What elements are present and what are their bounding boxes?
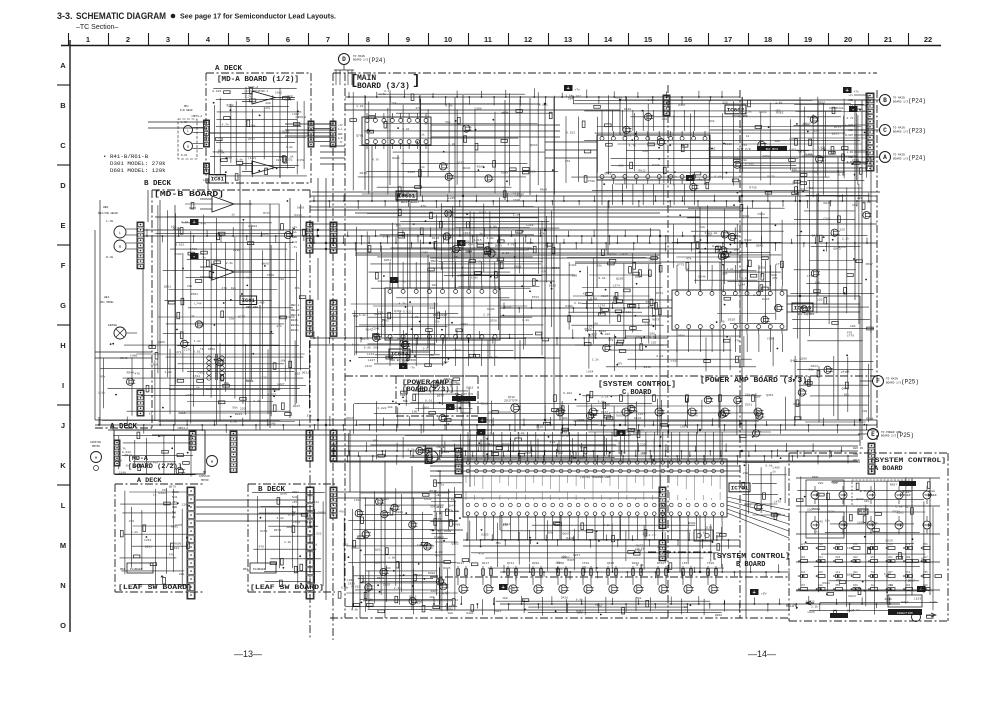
- svg-text:10k: 10k: [460, 243, 466, 247]
- svg-text:BMF: BMF: [716, 536, 721, 539]
- svg-text:2.2k: 2.2k: [475, 260, 482, 264]
- svg-text:VAR: VAR: [853, 453, 858, 456]
- svg-text:C486: C486: [130, 354, 137, 357]
- svg-text:0.01: 0.01: [411, 316, 418, 319]
- svg-text:1k: 1k: [424, 122, 428, 126]
- power flag B- #8: [446, 404, 455, 410]
- svg-text:100: 100: [447, 612, 453, 615]
- svg-text:GND: GND: [848, 156, 853, 159]
- svg-text:R518: R518: [272, 389, 279, 392]
- svg-text:0.022: 0.022: [572, 95, 581, 98]
- svg-text:1k: 1k: [684, 605, 688, 609]
- svg-text:6.8k: 6.8k: [740, 158, 747, 162]
- power flag B- #10: [477, 429, 486, 435]
- svg-text:1k: 1k: [420, 384, 424, 388]
- svg-text:Q566: Q566: [280, 493, 287, 496]
- svg-text:16: 16: [684, 35, 692, 44]
- svg-text:L284: L284: [428, 307, 435, 310]
- svg-text:C362: C362: [420, 449, 427, 452]
- svg-text:Q289: Q289: [616, 278, 623, 281]
- svg-text:‹5V: ‹5V: [436, 529, 441, 533]
- svg-text:D773: D773: [677, 264, 684, 267]
- svg-text:+5V: +5V: [761, 593, 767, 596]
- plunger A: [127, 563, 153, 573]
- svg-text:6.8k: 6.8k: [741, 276, 748, 280]
- connector D to main board (P24): [339, 54, 350, 65]
- svg-text:M: M: [211, 461, 213, 465]
- svg-text:1.8k: 1.8k: [288, 513, 295, 517]
- svg-text:100: 100: [502, 597, 508, 600]
- svg-text:0.01: 0.01: [469, 274, 476, 277]
- svg-text:R-OUT: R-OUT: [845, 134, 853, 137]
- power flag B+ #4: [843, 87, 852, 93]
- svg-text:D415: D415: [294, 214, 301, 217]
- svg-text:R152: R152: [282, 130, 289, 133]
- svg-text:R549: R549: [501, 171, 508, 174]
- svg-text:L744: L744: [194, 303, 201, 306]
- svg-text:(P24): (P24): [368, 57, 386, 64]
- svg-text:4: 4: [206, 35, 211, 44]
- svg-text:C: C: [60, 141, 66, 150]
- svg-text:D181: D181: [836, 107, 843, 110]
- svg-text:1k: 1k: [905, 505, 909, 509]
- svg-text:C534: C534: [582, 562, 589, 565]
- svg-text:0.01: 0.01: [181, 221, 188, 224]
- svg-text:CNP12-A: CNP12-A: [177, 427, 188, 430]
- svg-text:2.2k: 2.2k: [502, 251, 509, 255]
- svg-text:R737: R737: [263, 212, 270, 215]
- connector leaf B: [306, 487, 314, 599]
- svg-text:2.2k: 2.2k: [245, 94, 252, 98]
- svg-text:6.8k: 6.8k: [598, 276, 605, 280]
- svg-text:C700: C700: [588, 180, 595, 183]
- svg-text:Q494: Q494: [762, 155, 769, 158]
- svg-text:R642: R642: [366, 329, 373, 332]
- svg-text:D624: D624: [811, 365, 818, 368]
- svg-text:33k: 33k: [722, 272, 728, 276]
- svg-text:‹SW: ‹SW: [436, 481, 441, 485]
- svg-text:C466: C466: [789, 148, 796, 151]
- IC package dolby mid CXA1330P: [385, 288, 500, 340]
- connector CN852: [330, 121, 336, 147]
- connector main top: [663, 95, 670, 116]
- svg-text:100: 100: [802, 384, 808, 387]
- connector F out (P25): [873, 376, 884, 387]
- svg-text:Q385: Q385: [151, 364, 158, 367]
- svg-text:470: 470: [222, 287, 228, 290]
- svg-text:220: 220: [642, 150, 648, 153]
- svg-text:19: 19: [804, 35, 812, 44]
- svg-text:TEST P/N: TEST P/N: [737, 147, 751, 151]
- svg-text:655: 655: [836, 584, 841, 587]
- svg-text:R805: R805: [443, 567, 450, 570]
- svg-text:O: O: [60, 621, 66, 630]
- svg-text:L663: L663: [347, 579, 354, 582]
- svg-text:D393: D393: [158, 492, 165, 495]
- svg-text:D301 MODEL: 270k: D301 MODEL: 270k: [110, 160, 166, 167]
- svg-text:470: 470: [415, 107, 421, 110]
- svg-text:Q152: Q152: [451, 542, 458, 545]
- svg-text:BOARD 1/3: BOARD 1/3: [893, 130, 908, 134]
- svg-text:R-CH: R-CH: [106, 256, 113, 259]
- svg-text:367: 367: [888, 571, 893, 574]
- svg-text:0.022: 0.022: [563, 392, 572, 395]
- svg-text:47k: 47k: [295, 286, 301, 290]
- svg-text:Q328: Q328: [744, 239, 751, 242]
- svg-text:814: 814: [818, 556, 823, 559]
- bus stub ticks row 6: [333, 447, 335, 456]
- svg-text:L374: L374: [613, 284, 620, 287]
- op-amp IC2-B lower: [212, 264, 234, 280]
- board outline MAIN (3/3): [333, 72, 877, 74]
- svg-text:470: 470: [421, 205, 427, 208]
- connector CNP12-B pair: [306, 430, 313, 461]
- svg-text:220: 220: [640, 443, 646, 446]
- connector CNP82-A: [308, 121, 314, 147]
- svg-text:C276: C276: [184, 349, 191, 352]
- svg-text:33k: 33k: [430, 504, 436, 508]
- svg-text:R757: R757: [834, 126, 841, 129]
- svg-text:A-R: A-R: [338, 137, 343, 140]
- svg-text:L720: L720: [818, 147, 825, 150]
- IC package IC603: [672, 290, 787, 330]
- svg-text:C695: C695: [857, 521, 864, 524]
- svg-text:CN02: CN02: [172, 491, 179, 494]
- svg-text:220: 220: [814, 130, 820, 133]
- svg-text:ERASE: ERASE: [108, 324, 117, 327]
- svg-text:BIAS OSC: BIAS OSC: [206, 388, 221, 391]
- svg-text:D934: D934: [822, 582, 829, 585]
- svg-text:L704: L704: [193, 375, 200, 378]
- svg-text:D160: D160: [725, 143, 732, 146]
- svg-text:1.8k: 1.8k: [565, 93, 572, 97]
- svg-text:200: 200: [923, 584, 928, 587]
- svg-text:C446: C446: [569, 264, 576, 267]
- svg-text:D390: D390: [566, 305, 573, 308]
- svg-text:C941: C941: [706, 397, 713, 400]
- bus stub ticks row 9: [433, 597, 435, 604]
- svg-text:957: 957: [871, 556, 876, 559]
- svg-text:15: 15: [644, 35, 652, 44]
- svg-text:‹PB: ‹PB: [436, 517, 441, 521]
- svg-text:D637: D637: [588, 336, 595, 339]
- svg-text:33k: 33k: [307, 414, 313, 418]
- rec/pb head L (MD-A): [184, 126, 193, 135]
- svg-text:+7v: +7v: [848, 94, 853, 97]
- svg-text:R957: R957: [818, 101, 825, 104]
- svg-text:1.8k: 1.8k: [230, 420, 237, 424]
- IC701 right fan wires: [727, 497, 789, 510]
- connector CNP51-A: [204, 120, 210, 147]
- svg-text:Q889: Q889: [863, 162, 870, 165]
- IC package IC701 system control: [463, 459, 727, 517]
- bus stub ticks row 1: [313, 197, 315, 202]
- svg-text:TP2: TP2: [742, 144, 747, 147]
- svg-text:C971: C971: [587, 326, 594, 329]
- svg-text:56k: 56k: [373, 345, 379, 349]
- svg-text:L578: L578: [560, 431, 567, 434]
- connector bottom mid B: [455, 448, 462, 474]
- svg-text:BOARD 1/3: BOARD 1/3: [893, 157, 908, 161]
- svg-text:B: B: [883, 97, 887, 104]
- svg-text:10k: 10k: [832, 481, 838, 485]
- svg-text:L109: L109: [437, 537, 444, 540]
- svg-text:4.7k: 4.7k: [222, 123, 229, 127]
- right mid area F: [794, 361, 874, 363]
- svg-text:C987: C987: [601, 295, 608, 298]
- bottom mid transistor area: [361, 492, 450, 494]
- svg-text:4.7k: 4.7k: [841, 370, 848, 374]
- svg-text:487: 487: [923, 556, 928, 559]
- svg-text:220: 220: [815, 282, 821, 285]
- svg-text:6.8k: 6.8k: [351, 607, 358, 611]
- svg-text:L-CH: L-CH: [181, 121, 188, 124]
- svg-text:Q412: Q412: [812, 234, 819, 237]
- svg-text:R187: R187: [457, 562, 464, 565]
- svg-text:6.8k: 6.8k: [447, 498, 454, 502]
- svg-text:• R41-B/R61-B: • R41-B/R61-B: [103, 153, 149, 160]
- svg-text:2.2k: 2.2k: [483, 312, 490, 316]
- svg-text:0.022: 0.022: [248, 225, 257, 228]
- svg-text:220: 220: [839, 229, 845, 232]
- svg-text:6.8k: 6.8k: [670, 174, 677, 178]
- svg-text:2.2k: 2.2k: [131, 530, 138, 534]
- B board area: [532, 524, 695, 526]
- svg-text:RELAY: RELAY: [291, 309, 300, 312]
- svg-text:[SYSTEM CONTROL]: [SYSTEM CONTROL]: [598, 381, 676, 389]
- svg-text:220: 220: [817, 299, 823, 302]
- svg-text:R926: R926: [798, 303, 805, 306]
- svg-text:220: 220: [182, 504, 188, 507]
- svg-text:0.01: 0.01: [805, 153, 812, 156]
- power flag B- #15: [190, 253, 199, 259]
- svg-text:C897: C897: [318, 512, 325, 515]
- svg-text:Q762: Q762: [226, 104, 233, 107]
- svg-text:6.8k: 6.8k: [341, 586, 348, 590]
- svg-text:TO MAIN: TO MAIN: [893, 97, 905, 100]
- svg-text:33k: 33k: [709, 119, 715, 123]
- wire junction dots: [317, 229, 319, 231]
- svg-text:Q255: Q255: [663, 113, 670, 116]
- svg-text:F: F: [876, 378, 880, 385]
- svg-text:GND: GND: [848, 99, 853, 102]
- svg-text:-: -: [393, 277, 396, 284]
- svg-text:D815: D815: [178, 412, 185, 415]
- svg-text:D265: D265: [481, 533, 488, 536]
- svg-text:6.8k: 6.8k: [277, 516, 284, 520]
- svg-text:C531: C531: [624, 135, 631, 138]
- svg-text:SCHEMATIC DIAGRAM: SCHEMATIC DIAGRAM: [76, 11, 166, 21]
- IC label IC602: [725, 105, 746, 114]
- svg-text:1.8k: 1.8k: [775, 100, 782, 104]
- svg-text:HIGH: HIGH: [928, 490, 935, 493]
- svg-text:100: 100: [448, 247, 454, 250]
- svg-text:R594: R594: [503, 523, 510, 526]
- connector CNP13-A: [230, 431, 237, 473]
- svg-text:C526: C526: [267, 274, 274, 277]
- svg-text:4.7k: 4.7k: [399, 302, 406, 306]
- bus stub ticks row 12: [503, 303, 505, 309]
- svg-text:1k: 1k: [153, 492, 157, 496]
- svg-text:100: 100: [431, 590, 437, 593]
- svg-text:-7V: -7V: [338, 141, 343, 144]
- bus stub ticks row 11: [313, 331, 315, 338]
- svg-text:R849: R849: [504, 307, 511, 310]
- svg-text:6.8k: 6.8k: [517, 431, 524, 435]
- svg-text:2.2k: 2.2k: [603, 523, 610, 527]
- bias osc transformer T1: [207, 356, 211, 360]
- svg-text:56k: 56k: [646, 300, 652, 304]
- svg-text:112: 112: [836, 571, 841, 574]
- svg-text:33k: 33k: [229, 316, 235, 320]
- svg-text:R721: R721: [656, 292, 663, 295]
- rec/pb head R (MD-A): [184, 142, 193, 151]
- svg-text:0.022: 0.022: [622, 311, 631, 314]
- svg-text:962: 962: [836, 543, 841, 546]
- svg-text:R944: R944: [127, 371, 134, 374]
- finger group to A: [867, 152, 869, 162]
- A board switch rows S701-S713: [811, 491, 819, 499]
- svg-text:C444: C444: [305, 521, 312, 524]
- svg-text:0.01: 0.01: [383, 236, 390, 239]
- svg-text:100: 100: [775, 140, 781, 143]
- svg-text:100: 100: [733, 249, 739, 252]
- svg-text:603: 603: [906, 584, 911, 587]
- connector CNP12-A: [189, 431, 196, 450]
- svg-text:1k: 1k: [479, 232, 483, 236]
- svg-text:220: 220: [743, 472, 749, 475]
- svg-text:HE1: HE1: [104, 296, 110, 299]
- svg-text:470: 470: [630, 428, 636, 431]
- svg-text:IC81: IC81: [242, 297, 256, 304]
- svg-text:—14—: —14—: [748, 649, 776, 659]
- svg-text:2.2k: 2.2k: [394, 586, 401, 590]
- IC701 inner pin rows: [466, 469, 470, 473]
- svg-text:R245: R245: [793, 403, 800, 406]
- svg-text:GND: GND: [172, 506, 177, 509]
- svg-text:470: 470: [402, 361, 408, 364]
- svg-text:56k: 56k: [434, 319, 440, 323]
- svg-text:Q754: Q754: [517, 231, 524, 234]
- svg-text:Q980: Q980: [856, 498, 863, 501]
- svg-text:D: D: [342, 56, 346, 63]
- svg-text:L-IN: L-IN: [847, 151, 854, 154]
- svg-text:PW: PW: [172, 516, 176, 519]
- svg-text:1k: 1k: [125, 463, 129, 467]
- svg-text:L: L: [119, 232, 121, 236]
- connector CN05 bottom mid: [659, 487, 666, 529]
- svg-text:+7v: +7v: [854, 91, 860, 94]
- bottom mid lower area: [348, 561, 456, 563]
- svg-text:Q313: Q313: [125, 454, 132, 457]
- svg-text:743: 743: [871, 571, 876, 574]
- svg-text:206: 206: [888, 584, 893, 587]
- system control C area: [582, 395, 761, 397]
- IC package IC601 deck-select: [362, 117, 431, 145]
- capstan motor A: [91, 452, 102, 463]
- main mid wiring mesh: [367, 213, 516, 215]
- svg-text:47k: 47k: [100, 375, 106, 379]
- svg-text:47k: 47k: [734, 339, 740, 343]
- svg-text:4.7k: 4.7k: [507, 242, 514, 246]
- svg-text:MOTOR: MOTOR: [92, 445, 100, 448]
- svg-text:956: 956: [923, 543, 928, 546]
- svg-text:R: R: [119, 246, 122, 250]
- crystal X701: [694, 530, 713, 541]
- svg-text:1: 1: [86, 35, 90, 44]
- svg-text:4.7k: 4.7k: [649, 335, 656, 339]
- right of IC603 mesh: [728, 254, 782, 256]
- svg-text:+5V: +5V: [292, 501, 297, 504]
- svg-text:PN1: PN1: [120, 568, 125, 571]
- svg-text:0.01: 0.01: [590, 298, 597, 301]
- svg-text:470: 470: [478, 553, 484, 556]
- svg-text:+7v: +7v: [510, 588, 516, 591]
- bus stub ticks row 4: [98, 417, 100, 425]
- svg-text:R173: R173: [362, 338, 369, 341]
- svg-text:D658: D658: [115, 460, 122, 463]
- main center gap mesh: [441, 206, 533, 208]
- svg-text:220: 220: [343, 543, 349, 546]
- svg-text:D650: D650: [208, 348, 215, 351]
- svg-text:C458: C458: [305, 516, 312, 519]
- svg-text:L986: L986: [422, 406, 429, 409]
- svg-text:100: 100: [850, 325, 856, 328]
- svg-text:R422: R422: [528, 248, 535, 251]
- board outline SYSTEM CONTROL A: [789, 452, 948, 454]
- svg-text:220: 220: [755, 395, 761, 398]
- A board panel area: [832, 480, 909, 482]
- svg-text:Q741: Q741: [507, 562, 514, 565]
- svg-text:6.8k: 6.8k: [236, 158, 243, 162]
- svg-text:R974: R974: [274, 529, 281, 532]
- svg-text:D783: D783: [532, 296, 539, 299]
- svg-text:BOARD 1/3: BOARD 1/3: [353, 58, 368, 62]
- wire bus network: [345, 96, 740, 98]
- rec/pb head L (MD-B): [114, 226, 126, 238]
- svg-text:6.8k: 6.8k: [838, 172, 845, 176]
- svg-text:R173: R173: [595, 603, 602, 606]
- connector aux to E: [868, 443, 875, 474]
- svg-text:220: 220: [642, 452, 648, 455]
- svg-text:D923: D923: [848, 595, 855, 598]
- svg-text:220: 220: [651, 341, 657, 344]
- svg-text:Q183: Q183: [351, 547, 358, 550]
- power amp 2/3 area: [405, 383, 461, 385]
- svg-text:L263: L263: [382, 498, 389, 501]
- svg-text:D803: D803: [847, 610, 854, 613]
- svg-text:C515: C515: [455, 407, 462, 410]
- svg-text:D428: D428: [561, 597, 568, 600]
- svg-text:735: 735: [923, 571, 928, 574]
- svg-text:C859: C859: [421, 251, 428, 254]
- connector A out (P24): [880, 152, 891, 163]
- svg-text:47k: 47k: [265, 106, 271, 110]
- B board top boundary: [648, 551, 712, 553]
- svg-text:8: 8: [366, 35, 370, 44]
- svg-text:1k: 1k: [191, 314, 195, 318]
- svg-text:1k: 1k: [814, 530, 818, 534]
- svg-text:Q870: Q870: [169, 485, 176, 488]
- svg-text:R105: R105: [408, 171, 415, 174]
- svg-text:R-CH: R-CH: [181, 154, 188, 157]
- svg-text:Q548: Q548: [698, 276, 705, 279]
- svg-text:C425: C425: [620, 253, 627, 256]
- svg-text:L578: L578: [722, 256, 729, 259]
- connector C out (P23): [880, 125, 891, 136]
- svg-text:C516: C516: [823, 217, 830, 220]
- connector leaf A: [187, 487, 195, 599]
